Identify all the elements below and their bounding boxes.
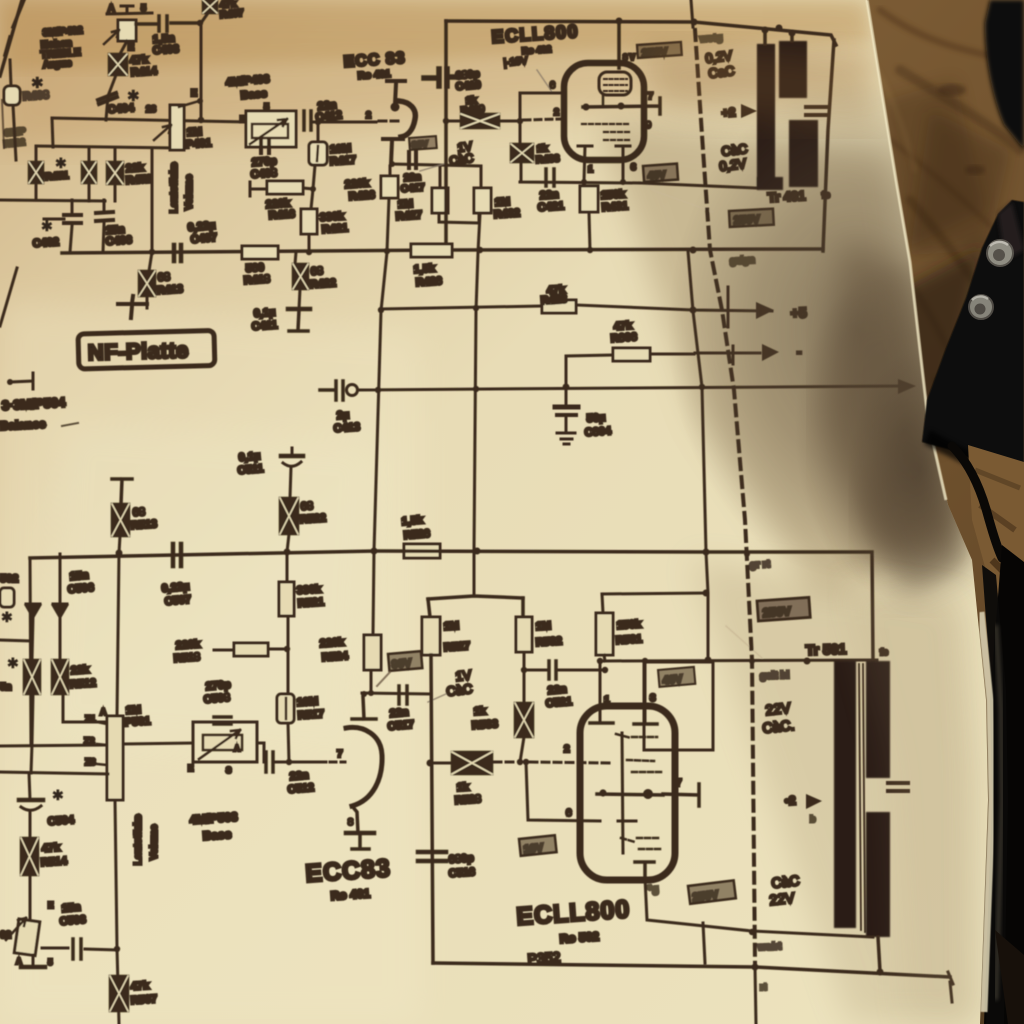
resistor (second): [88, 148, 91, 201]
svg-text:7: 7: [648, 91, 653, 101]
boxed 30V: [409, 136, 437, 150]
svg-text:C403: C403: [152, 43, 179, 57]
svg-text:R522: R522: [299, 512, 326, 526]
svg-text:30V: 30V: [411, 139, 428, 150]
svg-text:10M: 10M: [296, 696, 318, 709]
svg-text:22k: 22k: [70, 664, 90, 677]
black object top-right corner: [985, 0, 1024, 150]
wire: bus y=552 right part: [374, 551, 873, 660]
svg-text:68: 68: [157, 271, 170, 284]
wire: line y=660: [604, 660, 877, 661]
svg-text:68: 68: [300, 500, 313, 513]
column x=287: resistor R521 (330k): [286, 552, 289, 582]
svg-text:R431: R431: [601, 200, 628, 214]
svg-text:Z2: Z2: [84, 736, 95, 746]
transformer gap terminals: [888, 783, 908, 791]
wire: vertical feed x~695: [688, 251, 708, 660]
wire: bottom frame bus: [433, 963, 950, 977]
svg-text:E: E: [191, 88, 197, 98]
svg-text:Ro 401: Ro 401: [330, 886, 371, 903]
svg-text:7: 7: [337, 749, 343, 760]
dark right region bottom: [984, 545, 1024, 1024]
svg-text:R512: R512: [69, 677, 96, 691]
svg-text:3: 3: [650, 693, 656, 704]
tube cathode stubs: [578, 146, 630, 181]
svg-text:R452: R452: [125, 173, 152, 187]
svg-text:b: b: [810, 814, 816, 824]
transformer gap terminals: [806, 107, 826, 115]
svg-text:40V: 40V: [662, 673, 683, 687]
wire: bus continue + grid dashes to ECC83: [311, 121, 376, 124]
svg-text:R408: R408: [22, 89, 49, 103]
svg-text:C408: C408: [250, 167, 277, 181]
svg-text:C512: C512: [287, 782, 314, 796]
svg-text:C521: C521: [545, 696, 572, 710]
svg-text:220k: 220k: [175, 638, 201, 652]
svg-text:wstg: wstg: [698, 32, 722, 45]
svg-text:22V: 22V: [769, 889, 796, 908]
svg-text:22n: 22n: [389, 706, 409, 720]
svg-text:270p: 270p: [205, 679, 231, 693]
star marks: [0, 640, 30, 641]
svg-text:CàC: CàC: [771, 872, 801, 891]
svg-text:R423: R423: [540, 293, 567, 307]
resistor R511: [24, 660, 40, 694]
tube pins top stubs: [600, 661, 645, 724]
transformer Tr501 right bar upper: [866, 661, 890, 778]
svg-text:✱: ✱: [55, 155, 67, 171]
svg-text:5n: 5n: [0, 682, 12, 693]
svg-text:1M: 1M: [443, 620, 459, 633]
svg-text:C417: C417: [400, 182, 425, 195]
tube ECLL800 (bottom) envelope: [580, 706, 675, 880]
wire: dashed 250V rail: [695, 30, 755, 963]
svg-text:R533: R533: [471, 718, 498, 732]
wire: left frame vertical x=431: [431, 655, 433, 963]
svg-text:gelt bl: gelt bl: [760, 670, 790, 682]
svg-text:C413: C413: [333, 421, 360, 435]
svg-text:22n: 22n: [289, 769, 309, 783]
svg-text:C410: C410: [455, 79, 481, 93]
svg-text:Balance: Balance: [0, 417, 46, 433]
svg-text:2: 2: [554, 107, 559, 117]
tube grid dash rows: [582, 124, 630, 140]
svg-text:R416: R416: [268, 208, 295, 222]
wire: pot bottom down: [115, 800, 119, 1024]
svg-text:R417: R417: [329, 154, 356, 168]
wire: line y=186 under tube: [640, 183, 757, 188]
svg-text:gr rt: gr rt: [750, 559, 771, 571]
svg-text:502: 502: [0, 573, 18, 585]
wire: column x~387 down: [373, 252, 387, 635]
wire: cathode down + line to rail: [645, 878, 752, 931]
resistor R433: [511, 144, 533, 162]
capacitor C604 (50µ) to ground: [565, 387, 568, 407]
svg-text:Z3: Z3: [85, 757, 96, 767]
stray mark: [62, 423, 78, 426]
svg-text:1: 1: [588, 164, 593, 174]
svg-text:1,5k: 1,5k: [401, 514, 424, 528]
wire: line y=594: [602, 593, 706, 594]
wire: long column x~476: [474, 214, 480, 596]
potentiometer P502: [14, 919, 40, 956]
resistor R427: [439, 166, 479, 223]
shadow overlays on paper: [640, 40, 1024, 1024]
svg-text:68: 68: [310, 265, 323, 278]
resistor at left edge: [0, 588, 14, 607]
svg-text:47k: 47k: [130, 980, 150, 993]
paper lit edge: [867, 0, 946, 500]
svg-text:C406: C406: [105, 234, 132, 248]
resistor R414: [120, 41, 127, 54]
resistor R432: [480, 166, 483, 188]
capacitor C407 on bus: [174, 245, 181, 261]
resistor R407 (top edge): [203, 0, 217, 13]
stapler screw 1: [987, 240, 1013, 266]
svg-text:R426: R426: [415, 275, 442, 289]
svg-text:A: A: [234, 744, 240, 753]
potentiometer P402: [118, 20, 136, 41]
svg-text:R606: R606: [610, 331, 637, 345]
wire: transformer bottom line: [752, 931, 873, 937]
svg-text:Volume: Volume: [149, 824, 160, 860]
wire: pin6 box: [520, 93, 640, 183]
svg-text:S: S: [226, 766, 232, 775]
resistor R522 (68): [280, 498, 298, 534]
svg-text:Lautstärke: Lautstärke: [133, 814, 144, 865]
wire: cathode row y=165: [392, 164, 481, 166]
svg-text:R526: R526: [403, 528, 430, 542]
transformer Tr501 core lines: [859, 664, 865, 932]
resistor R514 (47k): [21, 838, 38, 875]
svg-text:✱: ✱: [127, 88, 140, 105]
svg-text:Ro 402: Ro 402: [521, 44, 551, 56]
svg-text:R532: R532: [535, 635, 562, 649]
svg-text:Volume: Volume: [184, 174, 195, 210]
svg-text:C604: C604: [584, 425, 612, 439]
svg-text:R418: R418: [243, 273, 270, 287]
capacitor C417: [409, 152, 416, 168]
svg-text:330k: 330k: [296, 583, 322, 597]
svg-text:R451: R451: [44, 170, 69, 183]
left column below: [29, 773, 30, 919]
svg-text:Lautstärke: Lautstärke: [169, 162, 180, 213]
wire: input bus y=120: [52, 118, 246, 122]
capacitor C507 (0,22µ) on bus: [173, 544, 181, 566]
svg-text:47k: 47k: [41, 842, 61, 855]
transformer top stubs: [765, 30, 792, 44]
svg-text:R527: R527: [443, 640, 470, 654]
transformer Tr501 left bar: [834, 661, 856, 928]
resistor R418 (560) on bus: [242, 246, 278, 259]
wire: vertical from R407 through C403 node down to input bus: [201, 13, 208, 121]
resistor R417 (10M): [313, 122, 318, 189]
svg-text:2: 2: [564, 744, 570, 755]
boxed 10V smudge: [519, 835, 557, 856]
resistor R431 (150k): [580, 186, 598, 212]
capacitor C406: [103, 200, 104, 252]
resistor R451: [35, 147, 38, 200]
svg-text:3: 3: [631, 162, 636, 172]
triode ECC83 (bottom): [352, 697, 376, 719]
capacitor C410 (680p): [424, 69, 460, 86]
wire: line y=311 with +5 arrow: [381, 305, 772, 311]
tube ECLL800 (top) envelope: [564, 63, 644, 160]
boxed 250V (mid): [729, 209, 774, 227]
resistor R512 (22k): [52, 660, 68, 694]
svg-text:22n: 22n: [547, 683, 567, 697]
wire: line y=353 with - arrow: [695, 352, 760, 355]
svg-text:A: A: [16, 957, 22, 966]
ground below R413: [118, 296, 147, 318]
wire: line y=200: [0, 200, 105, 201]
resistor R422: [295, 252, 300, 309]
potentiometer P401: [170, 105, 184, 150]
svg-text:•2: •2: [784, 793, 796, 808]
svg-text:40V: 40V: [647, 170, 666, 182]
wire: bridge y=596: [428, 596, 523, 599]
svg-text:R421: R421: [321, 222, 348, 236]
wood wedge below stapler: [968, 445, 1024, 620]
resistor R408 (left edge): [10, 60, 16, 160]
svg-text:220k: 220k: [319, 636, 345, 650]
wire: to pin6 of ECLL800: [526, 762, 600, 821]
NF-Platte box: [78, 330, 215, 369]
svg-text:Z1: Z1: [85, 714, 96, 724]
svg-text:Ro 502: Ro 502: [559, 929, 600, 946]
svg-text:15n: 15n: [69, 569, 89, 583]
wire: plate line y=694 with C517: [362, 693, 430, 694]
svg-text:9: 9: [646, 120, 651, 130]
resistor R606 (47k) branch: [566, 354, 694, 387]
svg-text:2µ: 2µ: [336, 409, 349, 422]
svg-text:ws/rt: ws/rt: [757, 941, 782, 953]
transformer Tr501 right bar lower: [866, 812, 890, 937]
svg-text:ECC83: ECC83: [304, 854, 391, 888]
stapler body: [922, 200, 1024, 482]
wire: line y=773: [0, 772, 108, 774]
svg-text:rt: rt: [760, 982, 767, 992]
svg-text:1k: 1k: [536, 143, 548, 155]
resistor R533 (1k): [523, 670, 526, 703]
svg-text:✱: ✱: [41, 218, 53, 234]
svg-text:6: 6: [566, 808, 572, 819]
svg-text:E: E: [240, 115, 246, 124]
svg-text:R432: R432: [493, 207, 520, 221]
svg-text:R426: R426: [348, 189, 375, 203]
resistor R513 (68) with T-top: [112, 479, 132, 504]
svg-text:Bass: Bass: [202, 827, 232, 843]
svg-text:2: 2: [366, 110, 371, 120]
svg-text:CàC: CàC: [446, 681, 474, 699]
resistor R425 (1,5k) on bus: [411, 244, 452, 257]
node C404: [106, 75, 116, 120]
wire: transformer right loop: [823, 40, 834, 251]
foreground black objects: [867, 0, 1024, 1024]
svg-text:C421: C421: [537, 200, 564, 214]
capacitor C411 to ground: [288, 307, 310, 312]
svg-text:50µ: 50µ: [586, 412, 605, 425]
svg-text:5: 5: [48, 958, 53, 967]
svg-text:Tr 501: Tr 501: [806, 641, 847, 658]
wire: bus y=552 left part: [30, 551, 374, 558]
svg-text:8 V: 8 V: [623, 53, 636, 62]
resistor R532 (1M): [516, 617, 532, 652]
capacitor C413 (2µ): [320, 381, 343, 400]
svg-text:150k: 150k: [616, 618, 642, 632]
svg-text:C506: C506: [67, 582, 94, 596]
tube mid line pin7: [583, 98, 660, 114]
boxed 250V (top): [637, 42, 682, 58]
svg-text:C407: C407: [190, 232, 217, 246]
svg-text:0,22µ: 0,22µ: [161, 581, 190, 595]
wire: vertical x=152: [151, 148, 154, 252]
svg-text:A: A: [108, 3, 115, 13]
svg-text:C517: C517: [387, 719, 414, 733]
svg-text:*g: *g: [647, 883, 659, 896]
transformer Tr401 right bar lower: [789, 120, 818, 187]
svg-text:P401: P401: [185, 137, 211, 151]
svg-text:C516: C516: [448, 866, 475, 880]
svg-text:68: 68: [132, 506, 145, 519]
wire: left frame vertical: [444, 21, 448, 250]
diode marks: [26, 604, 40, 617]
resistor R524 (220k): [370, 670, 373, 693]
svg-text:Bass: Bass: [240, 88, 267, 102]
svg-text:15n: 15n: [61, 901, 81, 915]
transformer Tr401 right bar upper: [779, 41, 807, 98]
svg-text:R517: R517: [297, 708, 324, 722]
svg-text:22V: 22V: [765, 699, 792, 718]
svg-text:0,1µ: 0,1µ: [238, 450, 261, 464]
capacitor C412 on input bus: [304, 111, 311, 130]
capacitor C521 (22n): [524, 669, 605, 672]
svg-text:R531: R531: [615, 633, 642, 647]
resistor R426 (220k): [387, 166, 390, 251]
capacitor C504: [19, 798, 43, 803]
anode lead into tube: [617, 22, 621, 68]
svg-text:23: 23: [146, 104, 156, 114]
svg-text:680p: 680p: [448, 852, 474, 866]
black cable: [952, 446, 1002, 558]
wire: row line y=147: [36, 146, 176, 148]
svg-text:R407: R407: [219, 8, 244, 21]
svg-text:1k: 1k: [456, 781, 470, 794]
wood sliver bottom-right corner: [995, 930, 1024, 1024]
svg-text:5: 5: [141, 3, 146, 13]
crease line: [652, 190, 713, 212]
resistor R421 (330k): [309, 189, 313, 252]
svg-text:7: 7: [676, 778, 682, 789]
svg-text:✱: ✱: [1, 609, 13, 625]
wire+capacitor C512 (22n) grid line: [257, 743, 264, 762]
svg-text:1M: 1M: [535, 620, 551, 633]
svg-text:R413: R413: [156, 283, 183, 297]
svg-text:10V: 10V: [523, 842, 544, 856]
svg-text:R518: R518: [173, 651, 200, 665]
svg-text:Argus: Argus: [42, 58, 72, 71]
svg-text:1k: 1k: [473, 705, 487, 718]
resistor R413: [147, 252, 152, 308]
svg-text:✱: ✱: [7, 655, 19, 671]
pale page-edge sliver: [981, 612, 992, 1012]
resistor R528 (1k) on grid line: [430, 762, 452, 765]
svg-text:6: 6: [550, 80, 555, 90]
svg-text:C511: C511: [237, 463, 264, 477]
capacitor C402: [44, 200, 72, 252]
svg-text:R414: R414: [130, 65, 158, 79]
wire: P402 top rail with T terminal: [107, 6, 152, 14]
bottom-right tick: [950, 982, 952, 1002]
svg-text:0,1µ: 0,1µ: [253, 307, 275, 320]
capacitor C408: [261, 139, 269, 153]
wire+capacitor C503 on line y=948: [42, 948, 117, 950]
svg-text:R433: R433: [535, 153, 560, 166]
svg-text:C402: C402: [32, 236, 59, 250]
boxed 40V: [643, 164, 678, 182]
svg-text:1,5k: 1,5k: [413, 262, 436, 276]
svg-text:C508: C508: [203, 692, 230, 706]
transformer bottom terminal blob: [757, 177, 783, 190]
svg-text:90V: 90V: [391, 657, 412, 671]
tube internals: [590, 723, 657, 724]
svg-text:R521: R521: [297, 596, 324, 610]
wire: dashed stub top-left corner: [5, 0, 24, 55]
tube internals: pentode cylinder: [599, 72, 631, 95]
boxed 40V area: [644, 662, 713, 750]
ground: [32, 955, 35, 966]
svg-text:✱: ✱: [52, 787, 64, 803]
capacitor C403: [136, 16, 197, 31]
svg-text:CàC.: CàC.: [762, 717, 795, 736]
svg-text:E: E: [128, 42, 134, 52]
svg-text:C503: C503: [59, 914, 86, 928]
svg-text:C504: C504: [47, 814, 75, 828]
wire: line y=388 long with end arrow: [358, 386, 905, 390]
boxed 90V smudge: [388, 651, 422, 671]
boxed 250V smudge (bottom): [688, 880, 736, 903]
tube pin7 lead: [663, 784, 699, 806]
svg-text:R507: R507: [130, 993, 157, 1007]
capacitor C516 (680p): [418, 852, 446, 861]
svg-text:E: E: [188, 764, 194, 773]
svg-text:R524: R524: [321, 650, 349, 664]
resistor R531 (150k): [596, 613, 613, 655]
wire: main bus y=250: [62, 249, 823, 253]
resistor R507 (47k): [110, 976, 128, 1011]
transformer Tr401 left bar: [757, 44, 775, 187]
svg-text:NF-Platte: NF-Platte: [87, 337, 189, 365]
wire: stub below bus: [755, 967, 756, 1024]
resistor R527 (1M): [422, 617, 440, 655]
svg-text:R513: R513: [130, 518, 157, 532]
boxed 250V smudge (upper): [757, 597, 810, 621]
svg-text:R528: R528: [454, 793, 481, 807]
svg-text:R427: R427: [395, 209, 422, 223]
svg-text:P501: P501: [124, 715, 150, 729]
wire: top frame rail: [446, 21, 836, 45]
potentiometer P503 (Bass) box: [193, 722, 257, 762]
capacitor C421: [546, 169, 554, 186]
stapler screw 2: [969, 295, 993, 319]
resistor R423 (47k): [542, 300, 576, 313]
svg-text:1: 1: [604, 695, 610, 706]
svg-text:250V: 250V: [762, 604, 791, 620]
svg-text:R422: R422: [309, 277, 336, 291]
balance terminal: [10, 373, 33, 389]
svg-text:E: E: [48, 901, 54, 910]
resistor R452: [114, 148, 117, 201]
